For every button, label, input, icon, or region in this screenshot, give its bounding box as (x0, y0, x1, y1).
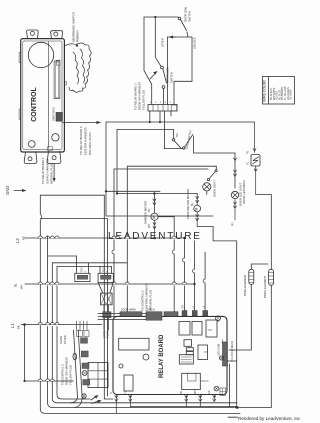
wire top y122 to door led module (106, 121, 255, 123)
svg-text:YELLOW PLUG: YELLOW PLUG (69, 365, 73, 385)
wire y166 branch (127, 165, 216, 167)
wire L1 line (21, 323, 102, 326)
door switch S2 (183, 130, 193, 149)
screw terminal left (82, 371, 87, 376)
latch arrow (169, 36, 177, 39)
pin connector blocks (182, 311, 208, 316)
board edge connector (hatched) right (223, 342, 228, 366)
pin labels (182, 305, 206, 309)
harness wire A corner (48, 236, 234, 407)
hole circle (143, 354, 149, 360)
wire x24 vertical (24, 325, 26, 382)
svg-text:L2: L2 (15, 238, 20, 243)
wire bottom bus y406 (130, 406, 236, 408)
wire y153 to led lamp branch (194, 136, 236, 153)
terminal labels (110, 390, 211, 394)
door led module X1 (247, 122, 272, 195)
svg-text:M: M (152, 216, 156, 219)
relay K4 (206, 320, 217, 337)
panel connector block 2 (81, 351, 88, 357)
svg-text:NATURAL PLUG: NATURAL PLUG (50, 163, 54, 184)
svg-text:WIRE COLOR: WIRE COLOR (263, 80, 267, 102)
control edge connector J1 (54, 60, 60, 98)
control buzzer circle (28, 42, 53, 67)
connector strip J2 top (148, 105, 177, 112)
relay board bottom terminals (115, 395, 216, 414)
svg-text:LEADVENTURE: LEADVENTURE (108, 231, 202, 242)
wire damper right terminal down (173, 217, 175, 312)
svg-text:PLUG: PLUG (106, 331, 110, 338)
thermal cutout box drops (77, 256, 112, 273)
wire color legend box (263, 77, 295, 105)
hump bus x40 at gnd pair (40, 214, 41, 221)
wire edge to return line (227, 360, 237, 362)
label door led mech (242, 180, 246, 204)
svg-text:BK: BK (17, 325, 21, 329)
membrane switch ribbon label (72, 12, 80, 47)
wire x117 (116, 129, 118, 193)
wire x127 down to board (126, 166, 128, 312)
component K6 (198, 345, 208, 360)
svg-text:RIBBON: RIBBON (76, 30, 80, 42)
control mounting ear bottom-right (47, 151, 61, 163)
svg-text:DAMPER MOTOR: DAMPER MOTOR (144, 201, 148, 224)
svg-text:M: M (195, 208, 199, 211)
svg-text:NO: NO (176, 133, 179, 137)
wire control to relay board 2 arrow (63, 121, 102, 124)
center vertical supply wires with humps (182, 238, 205, 312)
broil element R1 (269, 269, 274, 407)
node dot x117 (116, 192, 118, 194)
panel connector block 1 (81, 338, 88, 344)
svg-text:GRAY: GRAY (102, 331, 106, 338)
bake element R2 (229, 264, 268, 350)
wire pair y216 (106, 215, 213, 217)
wire y129 branch (117, 128, 174, 130)
svg-text:RELAY BOARD: RELAY BOARD (159, 334, 165, 378)
label to relay board 2 center harness natural plug (79, 126, 92, 155)
svg-text:UNLOCK: UNLOCK (193, 37, 197, 49)
control left edge tab 1 (19, 52, 21, 62)
label damper motor (144, 201, 152, 228)
svg-text:GY GRAY: GY GRAY (290, 89, 293, 100)
label gray plug (102, 331, 110, 338)
svg-text:(L): (L) (230, 223, 234, 226)
harness wire B corner (52, 263, 236, 403)
wire x155 interlock feed (155, 17, 161, 66)
oven led lamp F1 (230, 153, 239, 226)
wire y148 segment (165, 148, 184, 150)
interlock switch S4 (161, 66, 167, 104)
hump x114 (112, 250, 114, 254)
node dot damper tap (153, 192, 155, 194)
svg-text:OVEN LIGHT: OVEN LIGHT (213, 180, 217, 197)
control mounting ear bottom-left (24, 152, 37, 164)
label latch sw (218, 343, 221, 356)
wire bottom-left horizontal with humps (23, 379, 73, 382)
board trace stubs (200, 321, 222, 381)
svg-text:NATURAL PLUG: NATURAL PLUG (88, 132, 92, 155)
strip labels (121, 309, 155, 312)
svg-text:GND: GND (5, 186, 10, 195)
door open switch S1 (172, 129, 181, 148)
panel top feed wires (77, 321, 88, 331)
svg-text:LATCH: LATCH (147, 309, 155, 312)
label line filter (59, 335, 67, 344)
svg-text:N: N (110, 392, 113, 394)
oven light LP1 (203, 183, 211, 195)
control panel U1 outer box (21, 39, 65, 152)
node dot x106 y191 (105, 190, 107, 192)
wire y193.5 to fan (117, 193, 197, 195)
svg-text:N: N (13, 284, 18, 287)
mini terminal grid right edge (220, 388, 226, 396)
component U2 (179, 355, 193, 364)
relay board connector strip B (146, 312, 162, 321)
nested routing verticals left-center (104, 195, 113, 399)
control left edge tab 2 (19, 109, 21, 119)
control inner divider (48, 42, 50, 149)
door on switch S3 (178, 7, 191, 37)
svg-text:SWITCH: SWITCH (170, 72, 174, 83)
wire latch down x229 (229, 364, 231, 407)
svg-text:BK: BK (180, 390, 183, 394)
svg-text:LATCH SW: LATCH SW (218, 343, 221, 356)
wire x114 down to board (113, 169, 115, 316)
label latch mech (230, 341, 234, 362)
relay board connector strip A (120, 312, 142, 317)
svg-text:SWITCHES: SWITCHES (52, 107, 56, 121)
label to relay board door switch harness (134, 82, 146, 110)
relay board outline (113, 316, 227, 394)
component C1 (124, 375, 133, 391)
node N (13, 284, 24, 289)
terminal block grid (88, 363, 108, 388)
svg-text:NOISE: NOISE (59, 336, 63, 344)
screw terminal mid-right (220, 356, 224, 360)
node L1 (10, 323, 21, 329)
svg-text:RD: RD (208, 390, 211, 394)
transformer T1 assembly (98, 283, 113, 330)
svg-text:BAKE ELEMENT: BAKE ELEMENT (243, 274, 247, 296)
relay board connector strip C (164, 312, 178, 317)
control hole bottom-left (28, 141, 35, 148)
membrane ribbon torn shape (65, 43, 92, 92)
interlock circuit top wire (144, 16, 178, 18)
wire x144 drop to yellow plug (144, 17, 152, 105)
wire y191 (106, 190, 160, 192)
wire control bottom tab down (53, 164, 56, 183)
label broil element (263, 275, 267, 298)
control part number box (47, 147, 52, 150)
component Q1 (184, 340, 192, 347)
wire bottom right return (234, 406, 272, 409)
wire return x236 down (236, 241, 238, 407)
screw terminal left lower (82, 394, 86, 398)
svg-text:LATCH: LATCH (161, 38, 165, 47)
fan wires from panel (70, 398, 82, 407)
svg-text:GN: GN (182, 305, 185, 309)
panel top blocks (77, 331, 90, 337)
label bake element (243, 274, 247, 296)
svg-text:COOLING FAN MOTOR: COOLING FAN MOTOR (186, 189, 190, 219)
cooling fan motor M2 (194, 194, 237, 241)
oven light switch S5 (207, 166, 217, 181)
node dot x155 y17 (154, 16, 156, 18)
svg-text:Rendered by LeadVenture, Inc.: Rendered by LeadVenture, Inc. (238, 416, 300, 421)
svg-text:TO LATCH MECH: TO LATCH MECH (230, 341, 234, 362)
wire N line (25, 282, 196, 285)
svg-text:BK: BK (148, 208, 151, 212)
control hole right (52, 134, 59, 141)
wire right vertical x271 (270, 195, 272, 270)
control mounting ear top-right (51, 31, 63, 39)
svg-text:YELLOW PLUG: YELLOW PLUG (142, 90, 146, 110)
wire left bus x40 (40, 195, 240, 413)
screw terminal bottom-right (214, 386, 219, 391)
relay K1 (119, 338, 149, 350)
harness wire C corner (57, 266, 112, 399)
wire L2 line (25, 236, 186, 239)
control mounting ear top-left (27, 30, 39, 39)
label to relay board supply harness (41, 157, 54, 184)
node GND (5, 186, 27, 195)
label to control 2 control harness natural plug (141, 283, 153, 311)
wire arrow-line down x106 (105, 122, 107, 216)
svg-text:CONTROL: CONTROL (31, 86, 38, 121)
svg-text:WH: WH (194, 390, 197, 394)
svg-text:BU: BU (191, 202, 194, 206)
hump x174 (172, 250, 174, 254)
arrows into terminal block (91, 395, 102, 404)
svg-text:WH: WH (148, 224, 151, 228)
svg-text:FILTER: FILTER (63, 335, 67, 344)
thermal cutout TCO1 (75, 267, 90, 281)
svg-text:DOOR HARN: DOOR HARN (121, 309, 136, 312)
svg-text:WH: WH (20, 285, 24, 289)
door harness connector panel (73, 330, 82, 398)
svg-text:DOOR LED MECH: DOOR LED MECH (242, 180, 246, 204)
label interlock switch (166, 67, 174, 83)
small circle (119, 364, 123, 368)
svg-text:CENTER HARNESS: CENTER HARNESS (84, 127, 88, 155)
relay K3 (192, 322, 202, 336)
svg-text:L1: L1 (10, 323, 15, 328)
connector P1 (hatched) on control (52, 107, 63, 121)
component Q2 (186, 348, 193, 355)
svg-text:BROIL ELEMENT: BROIL ELEMENT (263, 275, 267, 298)
panel connector block 3 (82, 363, 89, 369)
control side tab (64, 82, 66, 86)
relay K5 (182, 373, 201, 389)
wire x164 pin drop (164, 111, 166, 149)
interlock arrow (150, 71, 158, 79)
wires control harness horizontals (98, 314, 146, 320)
latch rectangle wires (168, 37, 193, 105)
label cooling fan motor (186, 189, 194, 219)
relay K2 (179, 322, 190, 336)
label to control 3 door harness (61, 357, 73, 385)
svg-text:TO RELAY BOARD 2: TO RELAY BOARD 2 (79, 126, 83, 155)
node L2 (15, 236, 26, 243)
wire gnd horizontal pair (40, 195, 107, 218)
label oven led (239, 183, 243, 206)
damper motor M1 (151, 194, 174, 240)
strip pin labels (150, 102, 172, 104)
screw terminal top-right (216, 316, 221, 321)
panel connector block 4 (83, 380, 90, 386)
wire strip pin drops (149, 111, 171, 123)
wire y169 branch (114, 168, 208, 170)
svg-text:SWITCH: SWITCH (188, 11, 192, 22)
thermal cutout TCO2 / fuse (98, 267, 113, 282)
footer leader line (228, 416, 238, 418)
label oven light (213, 180, 217, 197)
